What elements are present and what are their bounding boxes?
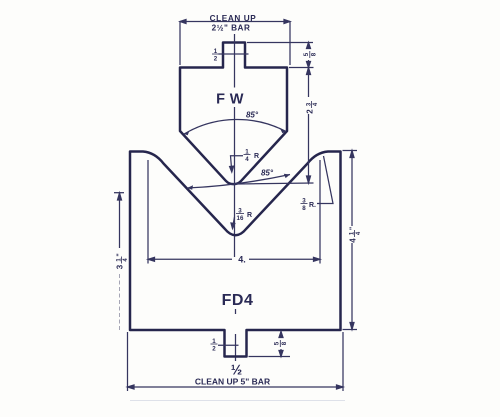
label 1/2 tang top fraction [214,48,218,63]
die 85 deg arc [187,175,290,189]
punch tip level reference line [236,183,314,184]
svg-text:2: 2 [212,346,216,353]
right 5/8 dim [307,43,311,68]
bottom right 5/8 dim [279,332,283,357]
svg-text:CLEAN UP 5" BAR: CLEAN UP 5" BAR [195,377,270,387]
svg-text:2: 2 [306,109,315,114]
svg-text:": " [117,253,124,256]
label 5/8 rotated bottom right [274,340,288,347]
bottom dimension line CLEAN UP 5 BAR [128,332,344,391]
svg-text:½: ½ [231,363,242,378]
tang top extension to 5/8 dim [247,42,313,44]
top dimension line CLEAN UP 2.5 BAR [180,20,290,66]
label 1/4 R [244,149,260,164]
svg-text:8: 8 [281,341,288,345]
punch 85 deg arc [184,119,286,134]
svg-text:R.: R. [309,202,316,209]
svg-text:R: R [247,212,252,219]
faint card edge line [130,400,345,402]
centerline lower [235,309,237,361]
label 3/16 R [236,208,252,223]
label 3 1/4 rotated left [116,253,130,269]
svg-text:CLEAN UP: CLEAN UP [210,14,257,23]
left 3 1/4 dim [114,193,124,330]
label 5/8 rotated top right [303,51,317,58]
svg-text:4: 4 [313,102,319,106]
centerline upper [234,34,236,257]
label 1/2 bottom tang fraction [212,338,216,353]
svg-text:4: 4 [123,258,129,262]
label 2 3/4 rotated [306,101,320,114]
svg-text:": " [350,227,357,230]
svg-text:16: 16 [237,215,244,222]
3/8 R leader [317,156,333,204]
svg-text:85°: 85° [246,111,259,120]
4 inch dim [148,160,320,264]
3/16 R leader [231,217,235,229]
shoulder extension to 5/8 dim [289,67,314,69]
svg-text:2: 2 [214,56,218,63]
svg-text:2½" BAR: 2½" BAR [212,24,251,33]
right 2 3/4 dim [307,68,311,184]
svg-text:5: 5 [274,341,281,345]
svg-text:4: 4 [349,238,358,243]
svg-text:4: 4 [245,156,249,163]
punch FW outline [180,43,287,185]
die FD4 outline [130,152,341,357]
svg-text:F W: F W [216,92,244,108]
svg-text:4: 4 [356,231,362,235]
bottom tang extension [249,356,291,358]
svg-text:85°: 85° [261,169,274,178]
label 4 1/4 rotated right [349,227,363,243]
svg-text:5: 5 [303,52,310,56]
svg-text:FD4: FD4 [222,292,254,309]
label 3/8 R [301,198,317,213]
svg-text:4.: 4. [238,255,246,265]
tang width dim 1/2 [219,53,249,55]
1/4 R leader [230,156,243,172]
right 4 1/4 dim [343,151,358,330]
svg-text:R: R [254,153,259,160]
svg-text:8: 8 [302,205,306,212]
bottom tang width dim 1/2 [218,344,239,346]
svg-text:3: 3 [116,264,125,269]
svg-text:8: 8 [310,52,317,56]
